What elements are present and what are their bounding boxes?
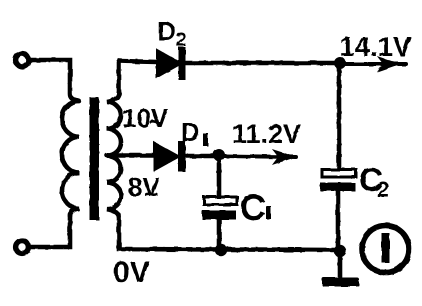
diode D2 (157, 50, 181, 77)
svg-text:2: 2 (176, 30, 187, 51)
wire: D1 cathode to C1 junction (185, 154, 219, 159)
wire: top-left terminal to primary top (29, 60, 79, 101)
node: bottom rail junction at C1 (216, 245, 226, 255)
svg-text:11.2V: 11.2V (232, 119, 301, 149)
wire: bottom rail (0V) (119, 215, 340, 250)
node: bottom rail junction at ground (335, 246, 345, 256)
wire: D2 cathode to C2 junction (185, 61, 340, 66)
svg-text:C: C (240, 187, 266, 228)
wire: primary bottom to bottom-left terminal (31, 214, 70, 247)
transformer secondary winding (107, 92, 121, 217)
terminal T2 bottom-left (16, 241, 29, 254)
capacitor C1 (204, 197, 237, 205)
svg-text:0V: 0V (113, 256, 150, 289)
transformer core (90, 97, 100, 220)
node: top rail junction (C2) (335, 58, 345, 68)
wire: top rail to D2 anode (119, 61, 158, 62)
capacitor C2 (322, 170, 356, 178)
wire: C2 to bottom rail (336, 191, 341, 250)
figure marker: circled 1 (362, 226, 409, 273)
wire: junction to ground (338, 253, 343, 279)
svg-text:2: 2 (377, 177, 389, 202)
svg-text:D: D (157, 16, 176, 46)
wire: C1 to bottom rail (217, 220, 222, 249)
wire: junction down to C2 (337, 67, 342, 169)
svg-text:D: D (181, 117, 200, 147)
wire: secondary top to top rail (117, 61, 122, 94)
svg-text:~: ~ (149, 109, 164, 137)
wire: 11.2V output arrow (224, 156, 296, 157)
node: tap rail junction (C1) (214, 150, 224, 160)
diode D1 (155, 143, 180, 170)
wire: secondary centre tap to D1 anode (107, 153, 154, 158)
terminal T1 top-left (16, 54, 29, 67)
svg-text:~: ~ (144, 181, 159, 209)
ground (322, 278, 359, 287)
transformer primary winding (62, 101, 79, 216)
svg-text:14.1V: 14.1V (340, 31, 413, 62)
wire: junction down to C1 (217, 159, 222, 196)
wire: 14.1V output arrow (345, 62, 406, 66)
